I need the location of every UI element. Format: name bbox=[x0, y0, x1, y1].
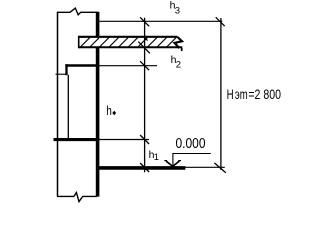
window sill (thick) bbox=[54, 138, 100, 141]
tick nub at slab top x145 bbox=[145, 38, 148, 41]
h1 level line bbox=[99, 139, 149, 141]
svg-text:3: 3 bbox=[175, 6, 180, 17]
tick at bottom right corner bbox=[214, 163, 225, 173]
tick at floor x145 bbox=[140, 163, 149, 172]
floor slab top edge bbox=[79, 36, 178, 38]
floor slab right break symbol bbox=[175, 37, 182, 48]
svg-text:0.000: 0.000 bbox=[176, 136, 206, 152]
diamond subscript bbox=[112, 111, 116, 115]
wall right edge lower (below slab) bbox=[96, 48, 100, 197]
svg-text:h: h bbox=[106, 104, 112, 118]
svg-text:эm: эm bbox=[235, 86, 248, 102]
tick at h2 level x145 bbox=[140, 61, 149, 70]
wall bottom edge with break symbol bbox=[57, 193, 97, 202]
floor slab bottom edge bbox=[79, 46, 183, 48]
tick at h1 level x145 bbox=[140, 135, 149, 144]
top dimension line h3 bbox=[99, 20, 222, 22]
window head stub (vertical) bbox=[65, 64, 67, 75]
floor thin line to right dimension line bbox=[185, 166, 224, 168]
svg-text:=2 800: =2 800 bbox=[248, 87, 281, 102]
svg-text:Н: Н bbox=[227, 87, 234, 102]
elevation mark shelf bbox=[172, 153, 210, 155]
wall right edge upper (above slab) bbox=[96, 12, 100, 36]
svg-text:1: 1 bbox=[154, 152, 159, 163]
wall left edge bbox=[57, 12, 59, 197]
tick at top dim line x145 bbox=[140, 17, 149, 26]
slab hatching bbox=[80, 38, 178, 48]
elevation arrow right foot bbox=[178, 160, 181, 162]
window pane line bbox=[67, 75, 69, 138]
h2 level line bbox=[99, 65, 157, 67]
elevation mark riser bbox=[172, 153, 174, 166]
floor thick line bbox=[97, 166, 185, 170]
elevation arrow left foot bbox=[164, 160, 167, 162]
right dimension line Hэт bbox=[220, 18, 222, 170]
wall top edge with break symbol bbox=[57, 8, 98, 15]
svg-text:2: 2 bbox=[176, 59, 181, 70]
window head (thick lintel line) bbox=[65, 64, 99, 67]
elevation mark arrow V bbox=[166, 161, 179, 166]
long tick at slab bottom x145 bbox=[138, 42, 150, 54]
window quarter step line bbox=[56, 73, 67, 75]
floor slab left edge bbox=[78, 36, 80, 48]
vertical dimension line bbox=[144, 18, 146, 173]
tick at top right corner bbox=[216, 17, 225, 26]
